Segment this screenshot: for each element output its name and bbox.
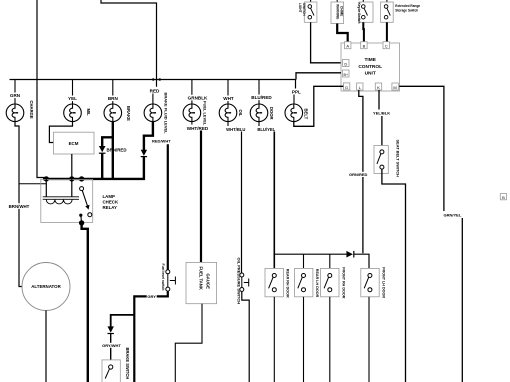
wire: door bus to front lh door <box>354 254 369 268</box>
svg-text:GRN/RED: GRN/RED <box>349 172 368 177</box>
label BRN/WHT <box>7 203 32 209</box>
pin M <box>392 83 398 90</box>
wire: front lh door ground <box>368 297 370 382</box>
svg-text:CONTROL: CONTROL <box>358 64 382 70</box>
svg-text:SWITCH: SWITCH <box>302 3 306 16</box>
wire: top feed to brake fluid lamp <box>101 0 157 87</box>
wire: fuel level lamp bottom stub <box>191 122 193 125</box>
pin B <box>361 42 367 49</box>
lamp belt <box>285 104 303 122</box>
svg-text:MIL: MIL <box>86 109 91 117</box>
wire: tap rear lh door <box>303 254 305 268</box>
wire: mil lamp drop <box>72 80 74 105</box>
svg-text:DOOR: DOOR <box>269 107 274 120</box>
wire: to seat belt switch <box>381 116 383 150</box>
node relay output <box>79 220 84 225</box>
wire: fuel level lamp drop <box>191 80 193 105</box>
svg-text:YEL/BLK: YEL/BLK <box>373 110 390 115</box>
svg-text:GRN/YEL: GRN/YEL <box>444 212 462 217</box>
wire: key-in switch to pin B <box>362 22 365 41</box>
svg-text:G: G <box>345 85 348 90</box>
svg-text:OIL PRESSURE SWITCH: OIL PRESSURE SWITCH <box>236 258 241 305</box>
diode red/wht <box>141 150 147 157</box>
wire: storage switch to pin C <box>386 22 388 41</box>
svg-text:LAMP: LAMP <box>103 194 116 199</box>
wire: below red/wht diode to junction row <box>82 157 144 179</box>
svg-text:GRY: GRY <box>147 294 156 299</box>
label RED <box>149 88 161 94</box>
diode gry/wht <box>108 326 114 333</box>
label GRN/RED <box>346 172 371 177</box>
light switch box <box>304 0 317 22</box>
lamp fuel level <box>183 104 201 122</box>
wire: brake fluid lamp stub <box>152 94 154 105</box>
door switch front rh <box>321 268 339 296</box>
svg-text:REAR LH DOOR: REAR LH DOOR <box>315 269 319 298</box>
svg-text:BRN/RED: BRN/RED <box>107 147 127 152</box>
svg-text:C: C <box>385 44 388 49</box>
label YEL <box>66 96 80 102</box>
door switch front lh <box>361 268 379 296</box>
svg-text:FRONT RH DOOR: FRONT RH DOOR <box>341 267 345 298</box>
label WHT <box>221 96 236 102</box>
lamp charge <box>6 104 24 122</box>
wire: rear rh door ground <box>273 297 275 382</box>
door switch rear rh <box>265 268 283 296</box>
wire: door switch bus <box>274 253 346 255</box>
pin D <box>343 60 349 67</box>
svg-text:BRAKE SWITCH: BRAKE SWITCH <box>125 348 130 380</box>
svg-text:A: A <box>346 44 349 49</box>
svg-text:CHIME: CHIME <box>340 6 344 16</box>
label BRN <box>106 96 121 102</box>
wire: oil lamp bottom stub <box>227 122 229 126</box>
label GRY/WHT <box>101 343 123 348</box>
label GRY <box>147 294 157 299</box>
wire: relay output down <box>82 223 88 382</box>
pin B+ <box>343 70 349 77</box>
svg-text:B: B <box>363 44 366 49</box>
wire: charge lamp drop <box>14 80 16 105</box>
wire: door lamp drop <box>258 80 260 105</box>
svg-text:REAR RH DOOR: REAR RH DOOR <box>286 269 290 298</box>
wire: main feed bus <box>10 79 297 81</box>
svg-text:ECM: ECM <box>69 141 79 146</box>
wire: front rh door ground <box>329 297 331 382</box>
lamp door <box>250 104 268 122</box>
wire: pin B+ to bus <box>296 73 341 80</box>
svg-text:SEAT BELT SWITCH: SEAT BELT SWITCH <box>395 140 400 178</box>
alternator circle <box>22 263 70 311</box>
svg-text:FUEL TANK: FUEL TANK <box>199 267 204 290</box>
fuel tank gauge box <box>186 262 217 303</box>
svg-text:ALTERNATOR: ALTERNATOR <box>31 284 61 289</box>
wire: junction row over relay <box>43 178 84 180</box>
svg-text:BLU/RED: BLU/RED <box>251 95 272 100</box>
wire: brake lamp drop <box>112 80 114 105</box>
splice marks at bus crossing <box>153 78 156 81</box>
wire: belt lamp drop <box>295 80 297 89</box>
svg-text:WHT/RED: WHT/RED <box>187 126 209 131</box>
svg-text:K: K <box>377 85 380 90</box>
time control unit box <box>341 43 400 91</box>
wire: oil pressure switch feed WHT/BLU <box>241 132 243 274</box>
label TIME CONTROL UNIT <box>358 57 382 76</box>
svg-text:BRAKE FLUID LEVEL: BRAKE FLUID LEVEL <box>164 93 169 135</box>
pin C <box>383 42 389 49</box>
svg-text:UNIT: UNIT <box>365 70 376 76</box>
pin G <box>343 83 349 90</box>
svg-text:CHECK: CHECK <box>103 200 119 205</box>
node junction 1 <box>44 176 49 181</box>
wire: light switch to pin D <box>311 22 341 63</box>
wire: red/wht to fuel level switch <box>167 144 169 270</box>
wire: pin M right and down <box>399 86 444 211</box>
wire: branch to brake switch <box>111 315 135 327</box>
wire: ECM to relay <box>71 154 73 179</box>
pin L <box>357 83 363 90</box>
svg-text:GRN: GRN <box>10 93 21 98</box>
svg-text:WHT: WHT <box>223 96 234 101</box>
wire: diode to brake switch <box>110 334 112 360</box>
label GRNBLK <box>184 95 211 101</box>
svg-text:BRAKE: BRAKE <box>126 106 131 121</box>
svg-text:YEL: YEL <box>68 96 77 101</box>
lamp check relay box <box>41 179 93 222</box>
lamp oil <box>219 104 237 122</box>
svg-text:B+: B+ <box>344 73 349 77</box>
wire: oil pressure switch out <box>242 292 249 382</box>
wire: alternator ground <box>45 311 47 382</box>
node junction 3 <box>79 176 84 181</box>
svg-text:RELAY: RELAY <box>103 205 118 210</box>
wire: charge lamp to alternator BRN/WHT <box>15 121 22 286</box>
svg-text:GRNBLK: GRNBLK <box>188 96 208 101</box>
wire: seat belt switch out <box>382 169 406 382</box>
wire: mil lamp to ECM <box>49 121 72 142</box>
wire: belt lamp stub <box>293 95 295 105</box>
lamp brake <box>104 104 122 122</box>
lamp mil <box>64 104 82 122</box>
svg-text:Fuel level switch: Fuel level switch <box>161 264 165 291</box>
svg-text:GRY/WHT: GRY/WHT <box>102 343 121 348</box>
wire: below brn/red diode <box>101 153 103 179</box>
svg-text:WARNING: WARNING <box>335 4 339 20</box>
wire: brake fluid lamp down <box>144 121 153 150</box>
wire: brn/red diode branch <box>102 137 113 146</box>
svg-text:B: B <box>502 195 505 200</box>
seat belt switch box <box>374 146 388 174</box>
svg-text:Storage Switch: Storage Switch <box>395 8 418 12</box>
svg-text:GAUGE: GAUGE <box>206 274 211 290</box>
svg-text:PPL: PPL <box>292 90 301 95</box>
brake switch box <box>102 360 120 382</box>
label WARNING CHIME <box>335 4 343 20</box>
diode brn/red <box>99 146 106 153</box>
svg-text:BELT: BELT <box>304 109 309 120</box>
svg-text:D: D <box>344 61 347 66</box>
wire: oil lamp drop <box>227 80 229 105</box>
wire: pin K YEL/BLK down <box>378 90 380 110</box>
svg-text:M: M <box>393 85 396 90</box>
svg-text:BRN/WHT: BRN/WHT <box>9 204 30 209</box>
svg-text:OIL: OIL <box>238 110 243 117</box>
wire: pin L GRN/RED down <box>359 90 363 253</box>
node junction 2 <box>69 176 74 181</box>
wire: fuel level switch GRY out <box>134 291 168 382</box>
svg-text:TIME: TIME <box>364 57 376 63</box>
label FUEL TANK GAUGE <box>199 267 211 290</box>
label LIGHT SWITCH <box>298 3 306 16</box>
relay coil <box>43 179 79 204</box>
wire: chime to pin A <box>337 24 348 42</box>
wire: GRN/YEL down <box>461 218 463 382</box>
svg-text:WHT/BLU: WHT/BLU <box>226 127 245 132</box>
pin K <box>375 83 381 90</box>
wire: brake lamp down thick <box>112 121 114 179</box>
ECM box <box>54 132 95 154</box>
lamp brake fluid level <box>144 104 162 122</box>
extended range storage switch box <box>381 0 394 22</box>
svg-text:FUEL LEVEL: FUEL LEVEL <box>203 101 208 126</box>
brake switch contacts <box>105 365 113 379</box>
label BLU/RED <box>248 95 276 101</box>
svg-text:LIGHT: LIGHT <box>298 3 302 13</box>
label GRN <box>8 93 23 99</box>
svg-text:BRN: BRN <box>108 96 119 101</box>
wire: door lamp BLU/YEL down <box>273 132 275 269</box>
pin A <box>345 42 351 49</box>
wire: pin G to belt lamp <box>294 86 344 126</box>
fuel level switch <box>166 270 176 291</box>
warning chime box <box>331 0 344 24</box>
wire: fuel gauge ground <box>175 304 202 382</box>
connector B box <box>500 194 506 200</box>
wire: tap to relay coil <box>19 183 46 185</box>
wire: tap front rh door <box>329 254 331 268</box>
wire: rear lh door ground <box>303 297 305 382</box>
key-in switch box <box>359 0 373 22</box>
relay switch <box>79 187 92 223</box>
svg-text:BLU/YEL: BLU/YEL <box>257 127 275 132</box>
svg-text:RED: RED <box>150 88 160 93</box>
svg-text:FRONT LH DOOR: FRONT LH DOOR <box>382 267 386 298</box>
svg-text:Key-In Switch: Key-In Switch <box>357 3 361 24</box>
label LAMP CHECK RELAY <box>103 194 119 210</box>
wire: left supply vertical to lamp check relay <box>37 0 46 180</box>
door switch rear lh <box>295 268 313 296</box>
wire: door lamp bottom stub <box>258 122 260 126</box>
diode door bus <box>346 251 353 258</box>
svg-text:CHARGE: CHARGE <box>29 101 34 119</box>
svg-text:RED/WHT: RED/WHT <box>152 139 171 144</box>
oil pressure switch <box>240 273 249 292</box>
wire: fuel gauge feed WHT/RED <box>200 131 202 263</box>
label Extended Range Storage Switch <box>395 4 420 12</box>
